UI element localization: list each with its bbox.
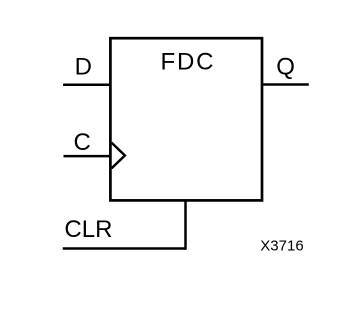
wire C input: [64, 155, 111, 158]
wire CLR vertical riser to box bottom: [184, 200, 187, 249]
clock edge triangle (C pin): [112, 143, 125, 169]
svg-text:X3716: X3716: [260, 237, 303, 254]
flip-flop U1 body (FDC symbol outline): [110, 38, 262, 200]
wire Q output: [262, 83, 309, 86]
svg-text:D: D: [75, 54, 92, 81]
svg-text:FDC: FDC: [161, 48, 216, 75]
wire CLR horizontal: [63, 247, 186, 250]
wire D input: [63, 83, 110, 86]
svg-text:Q: Q: [276, 53, 295, 80]
svg-text:C: C: [74, 129, 91, 156]
svg-text:CLR: CLR: [64, 216, 112, 243]
